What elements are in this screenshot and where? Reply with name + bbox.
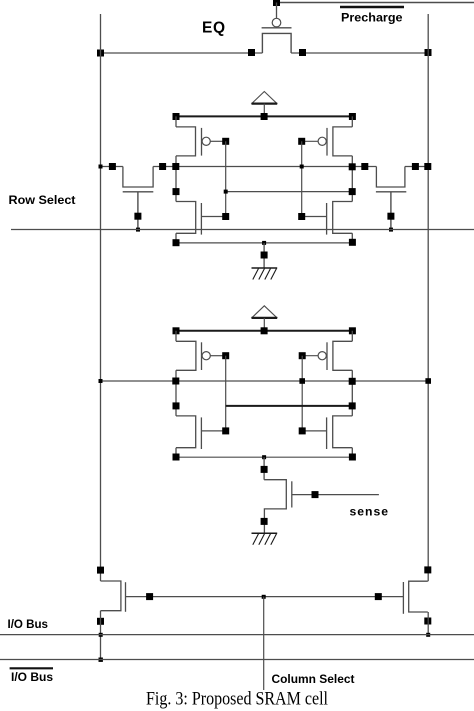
junction M1 gate wire — [222, 138, 229, 145]
wire M7 gate — [201, 430, 225, 432]
junction y166 node Qbar — [349, 163, 356, 170]
pmos M5 gate bubble — [202, 352, 210, 360]
junction M6 gate wire — [299, 352, 306, 359]
junction rail right end latch2 — [349, 327, 356, 334]
pmos M1 latch1 left: channel — [176, 127, 196, 156]
node Qbar column latch1 right — [351, 116, 353, 242]
junction y381 right gate column — [299, 378, 305, 384]
wire ground rail latch2 — [176, 456, 352, 458]
wire gnd stub latch1 — [263, 243, 265, 268]
junction rail right end latch1 — [349, 113, 356, 120]
wire IO Bus line — [0, 634, 474, 636]
junction BL on IO bus 2 — [99, 658, 103, 662]
wire node Q horizontal BL to latch (y166) — [101, 166, 429, 168]
junction BL node y166 — [99, 165, 103, 169]
wire gate column left latch2 — [225, 356, 227, 431]
nmos column-select right: channel — [409, 581, 428, 612]
pmos EQ equalizer: gate bubble — [272, 18, 281, 27]
wire M1 gate to cross-couple — [210, 140, 225, 142]
junction gnd rail right — [349, 239, 356, 246]
junction y381 BLbar — [425, 378, 431, 384]
nmos access left: gate bar — [123, 191, 154, 193]
junction rail2 right — [349, 454, 356, 461]
junction BL column-select top — [97, 567, 104, 574]
junction M5 gate wire — [222, 352, 229, 359]
junction M4 gate — [298, 213, 305, 220]
nmos access left: channel dip — [123, 167, 153, 188]
junction VDD stub latch1 — [261, 113, 268, 120]
nmos M8 gate bar — [326, 417, 328, 449]
pmos M5 gate bar — [201, 342, 203, 370]
wire Precharge top line — [277, 2, 474, 4]
node Q column latch1 left — [175, 116, 177, 242]
junction y166 c — [361, 163, 368, 170]
wire BL to EQ source — [101, 52, 263, 54]
junction gnd rail center — [262, 241, 266, 245]
wire sense gate line — [292, 494, 379, 496]
power VDD symbol latch1 — [252, 92, 278, 117]
wire bitline BLbar right vertical — [427, 14, 429, 581]
wire cross-couple y191 latch1 — [226, 191, 353, 193]
junction BL/EQ — [97, 50, 104, 57]
wire M6 gate to cross-couple — [302, 355, 318, 357]
junction access right on RowSelect — [389, 228, 393, 232]
nmos sense: gate bar — [291, 481, 293, 507]
label sense — [350, 505, 390, 519]
junction BLbar cs bottom — [424, 618, 431, 625]
nmos sense: top arm and channel — [264, 480, 286, 534]
wire BL lower segment — [100, 611, 102, 660]
junction y166 right gate column crossing — [300, 165, 304, 169]
wire VDD rail latch1 — [176, 115, 352, 117]
wire IO Bus bar line — [0, 659, 474, 661]
junction y406 on node S column — [173, 402, 180, 409]
junction y381 node S — [172, 378, 179, 385]
junction cs gate left — [146, 593, 153, 600]
label Column Select — [272, 674, 355, 686]
junction y166 node Q — [172, 163, 179, 170]
wire M2 gate to cross-couple — [302, 140, 318, 142]
wire column select gate line — [126, 596, 404, 598]
junction access left on RowSelect — [136, 228, 140, 232]
svg-text:Column Select: Column Select — [272, 674, 355, 686]
node Sbar column latch2 right — [351, 331, 353, 458]
junction BLbar/EQ — [425, 49, 432, 56]
wire Column Select vertical — [263, 597, 265, 690]
wire stub latch2 to sense — [263, 457, 265, 480]
label Row Select — [9, 193, 76, 207]
junction rail2 left — [173, 454, 180, 461]
ground symbol latch1 — [252, 268, 278, 280]
wire EQ drain to BLbar — [291, 52, 428, 54]
nmos M3 gate bar — [200, 203, 202, 235]
junction gnd rail left — [173, 239, 180, 246]
pmos M6 gate bubble — [318, 352, 326, 360]
junction BLbar on IO bus 1 — [426, 633, 430, 637]
wire M4 gate — [302, 216, 327, 218]
pmos M2 latch1 right: channel — [333, 127, 352, 156]
junction access left gate — [134, 213, 141, 220]
junction M3 gate — [222, 213, 229, 220]
svg-text:Row Select: Row Select — [9, 193, 76, 207]
wire access left gate stub — [137, 192, 139, 230]
nmos M7 latch2 left: channel — [176, 416, 196, 448]
nmos access right: channel dip — [376, 167, 405, 188]
nmos access right: gate bar — [376, 191, 406, 193]
wire gate column right latch2 — [301, 356, 303, 431]
wire BL to latch2 (y381) — [101, 380, 429, 382]
wire gate column right latch1 — [301, 141, 303, 216]
label I/O Bus (active-low overline) — [10, 668, 54, 684]
label I/O Bus — [8, 619, 49, 631]
nmos M4 gate bar — [326, 203, 328, 235]
svg-text:Fig. 3: Proposed SRAM cell: Fig. 3: Proposed SRAM cell — [146, 690, 328, 710]
junction EQ drain — [299, 49, 306, 56]
pmos M2 gate bubble — [318, 137, 326, 145]
junction y166 d — [412, 163, 419, 170]
junction sense gate — [312, 491, 319, 498]
wire M3 gate — [201, 216, 225, 218]
junction rail2 center — [262, 455, 266, 459]
junction y406 node Sbar end — [349, 402, 356, 409]
nmos M7 gate bar — [200, 417, 202, 449]
nmos column-select left: gate bar — [125, 582, 127, 612]
pmos M5 latch2 left: channel — [176, 341, 196, 370]
junction access right gate — [387, 213, 394, 220]
wire cross-couple y406 latch2 — [226, 405, 353, 407]
pmos EQ equalizer: gate stub — [276, 3, 278, 19]
pmos M1 gate bubble — [202, 137, 210, 145]
junction VDD stub latch2 — [261, 327, 268, 334]
pmos M1 gate bar — [201, 128, 203, 156]
junction EQ source — [248, 49, 255, 56]
nmos column-select left: channel — [101, 581, 121, 611]
pmos M6 latch2 right: channel — [333, 341, 352, 370]
svg-text:I/O Bus: I/O Bus — [11, 670, 53, 684]
nmos M3 latch1 left: channel — [176, 202, 196, 234]
wire M5 gate to cross-couple — [210, 355, 225, 357]
junction y166 BLbar — [424, 163, 431, 170]
junction M8 gate — [299, 427, 306, 434]
junction on Precharge line — [273, 0, 280, 6]
junction BLbar cs top — [424, 566, 431, 573]
nmos column-select right: gate bar — [402, 582, 404, 614]
junction rail left end latch1 — [173, 113, 180, 120]
node S column latch2 left — [175, 331, 177, 458]
junction y166 b — [159, 163, 166, 170]
svg-text:I/O Bus: I/O Bus — [8, 619, 49, 631]
wire VDD rail latch2 — [176, 330, 352, 332]
wire M8 gate — [302, 430, 326, 432]
junction cs gate right — [375, 593, 382, 600]
junction M2 gate wire — [298, 138, 305, 145]
pmos EQ equalizer: channel — [262, 33, 291, 53]
wire BLbar lower segment — [427, 612, 429, 634]
label EQ — [202, 20, 226, 37]
junction y166 a — [109, 163, 116, 170]
junction rail left end latch2 — [173, 327, 180, 334]
wire Row Select line — [11, 229, 474, 231]
ground symbol sense — [252, 533, 278, 545]
junction sense source — [261, 518, 268, 525]
junction cs center — [262, 595, 266, 599]
junction BL y381 — [99, 379, 103, 383]
label Precharge (active-low overline) — [340, 7, 404, 25]
caption Fig. 3: Proposed SRAM cell — [146, 690, 328, 710]
junction y381 node Sbar — [349, 378, 356, 385]
junction y191 node Qbar end — [349, 188, 356, 195]
junction BL below cs left — [97, 618, 104, 625]
svg-text:Precharge: Precharge — [341, 11, 403, 25]
junction gnd stub latch1 — [261, 252, 268, 259]
wire ground rail latch1 — [176, 242, 352, 244]
wire bitline BL left vertical — [100, 14, 102, 581]
wire gate column left latch1 — [225, 141, 227, 216]
svg-text:EQ: EQ — [202, 20, 226, 37]
junction BL on IO bus 1 — [99, 633, 103, 637]
pmos M2 gate bar — [326, 128, 328, 156]
junction stub sense — [261, 466, 268, 473]
svg-text:sense: sense — [350, 505, 390, 519]
junction M7 gate — [222, 427, 229, 434]
junction y191 left gate column — [224, 190, 228, 194]
wire access right gate stub — [390, 192, 392, 230]
nmos M8 latch2 right: channel — [333, 416, 353, 448]
nmos M4 latch1 right: channel — [333, 202, 353, 234]
power VDD symbol latch2 — [252, 306, 278, 331]
junction y191 on node Q column — [173, 188, 180, 195]
pmos EQ equalizer: gate bar — [262, 27, 292, 29]
pmos M6 gate bar — [326, 342, 328, 370]
